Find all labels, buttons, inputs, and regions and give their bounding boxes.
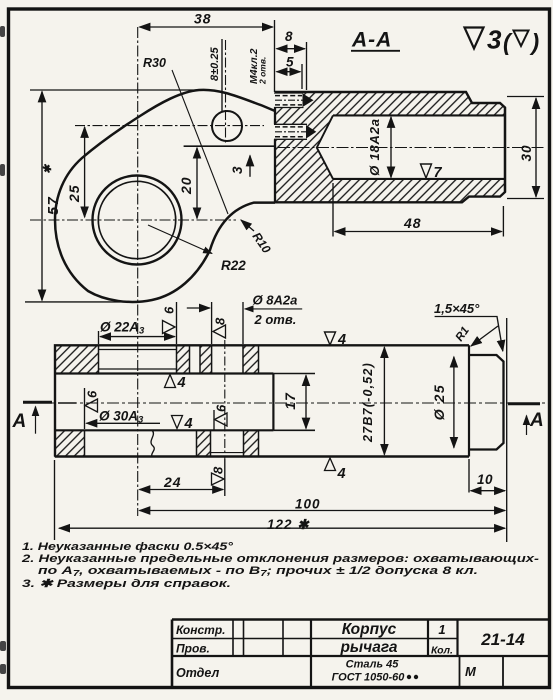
dimension Ø30 [86, 422, 160, 424]
slot Ø8 thread dashes [275, 127, 305, 137]
dimension Ø8 leader arrows [187, 307, 210, 309]
dimension 3 line [249, 156, 251, 177]
svg-text:А: А [529, 410, 544, 431]
dimension 20 line [196, 148, 198, 219]
svg-text:1. Неуказанные фаски 0.5×45°: 1. Неуказанные фаски 0.5×45° [22, 541, 234, 553]
svg-text:Отдел: Отдел [176, 666, 220, 680]
break squiggle [151, 430, 154, 456]
svg-text:А-А: А-А [351, 29, 392, 52]
centerline small hole vertical [225, 40, 227, 145]
bore centerline [278, 147, 545, 149]
svg-text:ГОСТ 1050-60: ГОСТ 1050-60 [332, 672, 406, 684]
svg-text:7: 7 [434, 165, 443, 181]
right face line through bore [504, 108, 506, 193]
dimension 30 extensions [507, 97, 544, 199]
label R1 [471, 326, 498, 346]
slot M4 cutout [271, 93, 304, 108]
svg-text:6: 6 [214, 404, 229, 412]
svg-text:Ø 25: Ø 25 [431, 384, 447, 420]
svg-text:4: 4 [184, 416, 193, 432]
hatch block bottom right [244, 430, 259, 456]
svg-text:48: 48 [403, 215, 422, 231]
hatch block bottom mid [197, 430, 211, 456]
svg-text:8: 8 [285, 29, 293, 44]
svg-text:рычага: рычага [339, 639, 397, 656]
roughness 4 under bottom edge [325, 458, 336, 471]
svg-text:Ø 18А2а: Ø 18А2а [367, 118, 382, 176]
bore cutout [317, 115, 505, 178]
roughness 6 middle right [213, 410, 215, 430]
cutting plane thick ends [23, 402, 540, 404]
slot Ø8 edges [274, 124, 307, 139]
hatch block top between holes [200, 345, 212, 373]
dimension 10 [471, 490, 505, 492]
R22 leader [148, 225, 212, 254]
svg-text:100: 100 [295, 497, 321, 512]
svg-text:2. Неуказанные предельные отк: 2. Неуказанные предельные отклонения раз… [21, 553, 540, 565]
extension for 8±0.25 [221, 39, 223, 112]
centerline vertical main bore axis [137, 27, 139, 516]
section outline [275, 92, 505, 202]
dimension 57: extension lines [25, 90, 197, 302]
inner edge extensions for 17 [273, 374, 315, 431]
section left edge segments [274, 108, 276, 203]
slot M4 edges [274, 93, 304, 108]
big bore circle inner (chamfer) [98, 181, 175, 258]
svg-text:24: 24 [163, 474, 182, 490]
svg-text:3: 3 [230, 166, 245, 174]
spigot outline [469, 355, 504, 450]
svg-text:R22: R22 [221, 258, 246, 273]
slot M4 thread dashes [275, 96, 302, 105]
bore cone [317, 115, 333, 178]
dimension 17 [305, 375, 307, 428]
dimension 5 (thread depth) [277, 71, 301, 73]
svg-text:А: А [12, 411, 27, 432]
svg-text:8: 8 [213, 317, 228, 325]
svg-text:1: 1 [438, 622, 445, 637]
cam outline upper [55, 90, 275, 220]
svg-text:3. ✱ Размеры для справок.: 3. ✱ Размеры для справок. [22, 578, 231, 590]
roughness mark 3 [465, 28, 484, 49]
flange inner edges [55, 374, 273, 431]
svg-text:Пров.: Пров. [176, 642, 210, 656]
cutting arrow right [526, 416, 528, 436]
svg-text:57: 57 [46, 196, 62, 215]
dimension 100 [139, 510, 505, 512]
section body hatched [275, 92, 505, 202]
hatch end block top-left [55, 345, 99, 373]
Ø22 hole inner lines [99, 350, 177, 370]
svg-text:25: 25 [66, 184, 82, 203]
ext lines below [55, 318, 507, 542]
svg-text:R30: R30 [143, 56, 166, 70]
dimension 38 extension [274, 20, 276, 92]
roughness 4 middle slot [172, 416, 183, 429]
svg-text:Ø 8А2а: Ø 8А2а [253, 293, 298, 308]
small holes axis [224, 340, 226, 459]
svg-text:122 ✱: 122 ✱ [267, 517, 310, 532]
roughness mark 4 on top edge [325, 332, 336, 345]
Ø8 hole bottom blind line [211, 452, 244, 454]
dimension 30 line [535, 98, 537, 197]
svg-text:4: 4 [337, 332, 346, 348]
dimension Ø18 line [390, 117, 392, 177]
dimension 27B7 [383, 347, 385, 455]
svg-text:27В7(-0,52): 27В7(-0,52) [361, 362, 375, 443]
svg-text:8: 8 [211, 466, 226, 474]
label R10 rotated with leader [241, 220, 254, 231]
ext line Ø30 left [84, 388, 86, 429]
svg-text:4: 4 [177, 375, 186, 391]
svg-text:2 отв.: 2 отв. [254, 312, 297, 327]
small hole M4 circle [212, 111, 242, 141]
big bore circle outer [93, 176, 182, 265]
cutting arrow left [35, 407, 37, 434]
svg-text:8±0.25: 8±0.25 [209, 47, 221, 81]
hatch block top right [243, 345, 259, 373]
dimension Ø22 [100, 336, 175, 338]
svg-text:17: 17 [282, 392, 298, 410]
dimension 48 line [335, 231, 502, 233]
svg-text:Корпус: Корпус [342, 621, 397, 638]
dimension 25 line [84, 127, 86, 217]
step edge line [184, 145, 274, 147]
ext lines above top bar [99, 302, 244, 344]
shoulder face [468, 345, 470, 456]
slot M4 cone [303, 93, 314, 107]
svg-text:Кол.: Кол. [431, 645, 453, 657]
roughness 4 under top inner edge [165, 375, 176, 388]
svg-text:20: 20 [178, 176, 194, 195]
dimension 57 line [41, 92, 43, 301]
slot Ø8 cutout [271, 124, 308, 139]
svg-text:30: 30 [519, 144, 534, 161]
centerline horizontal big circle [30, 219, 236, 221]
centerline small hole horizontal [75, 125, 264, 127]
dimension Ø25 [453, 357, 455, 448]
slot Ø8 cone [306, 125, 316, 139]
svg-text:Ø 30А3: Ø 30А3 [99, 409, 144, 426]
slot floor [272, 374, 274, 431]
svg-text:Сталь 45: Сталь 45 [346, 659, 400, 671]
svg-text:по А7, охватываемых - по В7;: по А7, охватываемых - по В7; прочих ± 1/… [38, 565, 478, 578]
R30 leader line [172, 70, 228, 214]
hatch end block bottom-left [55, 430, 85, 456]
svg-text:Констр.: Констр. [176, 623, 226, 637]
svg-text:38: 38 [194, 11, 212, 27]
svg-text:2 отв.: 2 отв. [258, 57, 268, 85]
dimension 122 [59, 527, 505, 529]
dimension 8 (hole depth) [277, 48, 305, 50]
cam outline lower with R10 fillet [55, 203, 275, 302]
svg-text:6: 6 [85, 390, 100, 398]
svg-text:4: 4 [337, 466, 346, 482]
svg-text:10: 10 [477, 472, 493, 487]
bore outline [333, 115, 505, 178]
dimension 38: line [140, 26, 273, 28]
svg-text:5: 5 [286, 55, 294, 70]
svg-text:21-14: 21-14 [480, 630, 525, 649]
dimension 24 [139, 489, 223, 491]
binding marks left edge [0, 26, 6, 674]
dimension 48 extensions [333, 183, 503, 237]
svg-text:М: М [465, 664, 477, 679]
cutting plane centerline [23, 402, 545, 404]
part outline: left face, top, bottom [55, 345, 469, 456]
svg-text:Ø 22А3: Ø 22А3 [100, 320, 145, 337]
svg-text:1,5×45°: 1,5×45° [434, 301, 480, 316]
hatch block top M4 left [177, 345, 190, 373]
roughness 7 in bore [421, 164, 432, 178]
svg-text:3: 3 [487, 25, 502, 55]
svg-text:6: 6 [162, 306, 177, 314]
